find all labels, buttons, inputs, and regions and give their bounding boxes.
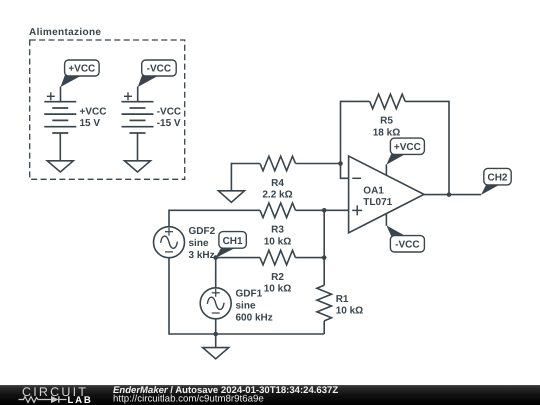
svg-text:R1: R1 — [336, 294, 349, 305]
battery V1 labels — [80, 107, 107, 130]
source GDF1 sine 600kHz — [200, 288, 231, 319]
svg-text:R5: R5 — [380, 116, 393, 127]
svg-text:http://circuitlab.com/c9utm8r9: http://circuitlab.com/c9utm8r9t6a9e — [113, 394, 264, 405]
net flag -VCC (op-amp) — [386, 225, 424, 252]
resistor R2 — [260, 250, 296, 265]
svg-text:3 kHz: 3 kHz — [189, 250, 215, 261]
footer bar — [0, 385, 540, 405]
svg-text:-15 V: -15 V — [157, 118, 181, 129]
source GDF2 sine 3kHz — [154, 227, 185, 258]
svg-text:sine: sine — [236, 301, 256, 312]
resistor R4 — [260, 156, 296, 171]
svg-text:CH1: CH1 — [223, 236, 243, 247]
resistor R1 labels — [336, 294, 363, 317]
svg-text:LAB: LAB — [68, 395, 93, 405]
svg-text:Alimentazione: Alimentazione — [29, 27, 101, 38]
ground G3 — [218, 191, 244, 203]
svg-text:2.2 kΩ: 2.2 kΩ — [262, 190, 292, 201]
resistor R5 labels — [373, 116, 400, 139]
svg-text:TL071: TL071 — [363, 197, 392, 208]
wire V1 top — [60, 87, 62, 102]
svg-text:-VCC: -VCC — [157, 107, 181, 118]
wire V1 bottom — [59, 133, 61, 161]
source GDF1 labels — [236, 288, 273, 323]
resistor R4 labels — [262, 178, 292, 201]
resistor R3 labels — [264, 225, 291, 248]
net flag CH2 — [481, 168, 511, 195]
svg-text:GDF2: GDF2 — [189, 226, 216, 237]
wire R4 right — [296, 163, 341, 165]
resistor R3 — [260, 203, 296, 218]
wire output — [424, 194, 481, 196]
wire R2 left — [216, 257, 260, 259]
wire R2 right — [296, 257, 325, 259]
svg-text:-VCC: -VCC — [147, 64, 171, 75]
net flag +VCC (op-amp) — [386, 138, 424, 165]
wire R3 left — [169, 210, 260, 226]
wire R3 right to op-amp — [296, 209, 349, 211]
net flag CH1 — [213, 232, 246, 260]
svg-text:10 kΩ: 10 kΩ — [336, 306, 363, 317]
wire R1 bottom — [323, 321, 325, 334]
svg-text:600 kHz: 600 kHz — [236, 313, 273, 324]
resistor R1 — [317, 285, 332, 321]
wire ground stub bottom — [215, 334, 217, 348]
svg-text:-VCC: -VCC — [395, 240, 419, 251]
node junction output — [447, 192, 452, 197]
node junction R3 row — [322, 208, 327, 213]
svg-text:+VCC: +VCC — [394, 142, 421, 153]
svg-text:18 kΩ: 18 kΩ — [373, 127, 400, 138]
svg-text:R2: R2 — [271, 272, 284, 283]
wire GDF1 bottom — [215, 319, 217, 334]
source GDF2 labels — [189, 226, 216, 261]
node junction R4/feedback — [338, 161, 343, 166]
battery V2 labels — [157, 107, 181, 130]
svg-text:15 V: 15 V — [80, 118, 101, 129]
net flag +VCC (V1) — [61, 60, 100, 87]
wire feedback minus input — [341, 101, 370, 178]
resistor R2 labels — [264, 272, 291, 295]
wire GDF1 top — [215, 258, 217, 288]
svg-text:OA1: OA1 — [363, 185, 384, 196]
footer logo wire glyph — [19, 396, 67, 402]
op-amp OA1 labels — [363, 185, 392, 208]
node junction R2 row — [322, 255, 327, 260]
wire V2 top — [137, 87, 139, 102]
svg-text:10 kΩ: 10 kΩ — [264, 284, 291, 295]
ground G4 — [203, 348, 229, 359]
svg-text:R4: R4 — [271, 178, 284, 189]
resistor R5 — [370, 94, 406, 109]
svg-text:sine: sine — [189, 238, 209, 249]
wire node R3 to node R2 — [323, 210, 325, 257]
wire R5 right feedback — [405, 101, 449, 194]
svg-text:10 kΩ: 10 kΩ — [264, 236, 291, 247]
svg-text:R3: R3 — [271, 225, 284, 236]
node junction bottom rail — [213, 332, 218, 337]
svg-text:+VCC: +VCC — [68, 64, 95, 75]
battery V1 +VCC 15V — [44, 92, 76, 133]
wire GDF2 bottom rail — [169, 258, 324, 334]
net flag -VCC (V2) — [138, 60, 177, 87]
svg-text:GDF1: GDF1 — [236, 288, 263, 299]
wire R4 left — [231, 163, 260, 165]
wire V2 bottom — [137, 133, 139, 161]
svg-text:+VCC: +VCC — [80, 107, 107, 118]
battery V2 -VCC -15V — [122, 92, 154, 133]
enclosure Alimentazione — [29, 27, 185, 179]
op-amp OA1 TL071 — [349, 156, 424, 233]
ground G2 — [125, 161, 151, 172]
svg-text:CH2: CH2 — [487, 173, 507, 184]
wire ground stub under R4 — [230, 163, 232, 191]
wire R2 node down to R1 — [323, 258, 325, 286]
ground G1 — [47, 161, 73, 172]
